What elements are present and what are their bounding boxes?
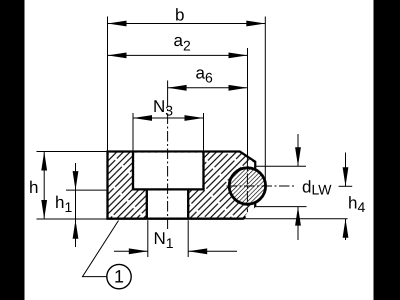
arrow h4 top (outside above, pointing down) (343, 167, 349, 186)
slot left wall (146, 189, 148, 218)
dim line h4 top shaft (345, 153, 347, 187)
ext line a2/a6 right (to circle centerline) (247, 48, 249, 156)
slot right wall (187, 189, 189, 218)
arrow dLW top (outside above, pointing down) (295, 147, 301, 166)
ext line part-bottom extended right (h4 bottom) (244, 218, 348, 220)
part bottom edge (continuous) (106, 217, 243, 219)
ext line a6 left (slot centerline tick) (167, 81, 169, 97)
ext line N1 right (187, 220, 189, 257)
dim line N1 right tail (188, 250, 237, 252)
centerline horizontal through circle (227, 185, 295, 187)
arrow h top (41, 152, 47, 171)
arrow h4 bottom (outside below, pointing up) (343, 219, 349, 238)
svg-text:b: b (175, 6, 184, 25)
dim line a2 (108, 54, 248, 56)
ext line N3 left (132, 113, 134, 150)
white pocket top-right (relief corner) (248, 160, 255, 175)
arrow b right (246, 21, 265, 27)
part body (hatched section) (108, 152, 256, 219)
svg-text:h: h (29, 178, 38, 197)
dim line a6 (168, 87, 248, 89)
arrow dLW bottom (outside below, pointing up) (295, 207, 301, 226)
dim line dLW bottom shaft (297, 207, 299, 240)
dim line dLW top shaft (297, 134, 299, 166)
dim line b (108, 23, 266, 25)
left black pillarbox bar (0, 0, 25, 300)
arrow h bottom (41, 200, 47, 219)
ext line part-bottom extended left (h bottom) (37, 218, 107, 220)
right black pillarbox bar (374, 0, 400, 300)
white pocket bottom-right (relief corner) (245, 203, 254, 217)
ext line part-top extended left (h top) (37, 151, 107, 153)
ext line b+a2 left (part left edge extended up) (107, 17, 109, 151)
svg-text:1: 1 (114, 267, 124, 287)
arrow a6 right (229, 85, 248, 91)
arrow a2 left (108, 53, 127, 59)
recess N3 (white) (134, 153, 202, 190)
arrow h1 top (outside above, pointing down) (73, 171, 79, 190)
ext line N1 left (147, 220, 149, 257)
recess shelf line (132, 188, 205, 190)
ext line N3 right (203, 113, 205, 150)
arrow a2 right (229, 53, 248, 59)
centerline vertical through slot (167, 96, 169, 230)
dim line h (43, 152, 45, 220)
recess right wall (202, 152, 204, 189)
slot N1 (white) (148, 191, 187, 218)
arrow N3 left (133, 115, 152, 121)
dim line h4 bottom shaft (345, 219, 347, 240)
dim line h1 (75, 163, 77, 247)
arrow b left (108, 21, 127, 27)
ext line dLW bottom (circle bottom tangent extended right) (255, 206, 307, 208)
arrow N3 right (185, 115, 204, 121)
dim line N3 (133, 117, 204, 119)
ball / bore circle (hatched) (229, 168, 265, 204)
leader line to callout 1 (83, 221, 119, 277)
arrow h1 bottom (outside below, pointing up) (73, 220, 79, 239)
dim line N1 left tail (114, 250, 148, 252)
arrowheads (41, 21, 348, 255)
recess left wall (132, 152, 134, 189)
arrow N1 left (outside, pointing right) (129, 248, 148, 254)
ext line b right (circle right tangent extended up) (264, 17, 266, 183)
centerline vertical through circle (246, 156, 248, 212)
arrow N1 right (outside, pointing left) (188, 248, 207, 254)
arrow a6 left (168, 85, 187, 91)
callout circle 1 (107, 264, 131, 288)
ext line h4 top tick (circle center extended) (339, 185, 353, 187)
ext line dLW top (circle top tangent extended right) (256, 165, 306, 167)
ext line h1 top (recess shelf extended left) (66, 189, 106, 191)
